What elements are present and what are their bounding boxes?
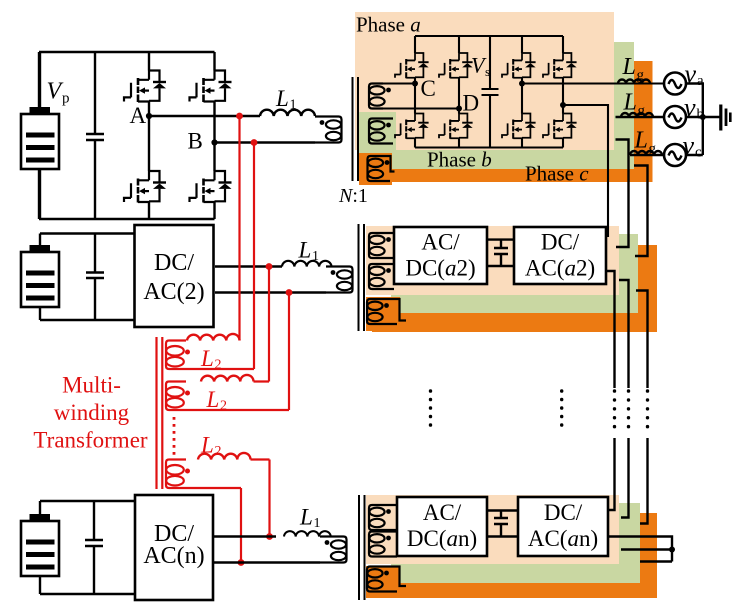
svg-text:L: L [200, 346, 214, 371]
wire: winding c2 stubs [381, 299, 406, 324]
svg-text:1: 1 [290, 98, 297, 113]
svg-text:L: L [200, 433, 214, 458]
wire: winding cn stubs [381, 567, 406, 592]
svg-text:AC(an): AC(an) [528, 526, 598, 551]
transistor S4 [543, 53, 577, 78]
red winding 2 [166, 382, 190, 411]
transistor S8 [543, 114, 577, 139]
transformer 1 primary coil [315, 117, 342, 143]
red winding 2 wires [254, 267, 270, 382]
node: string neutral [669, 547, 675, 553]
transformer 1 core [353, 77, 359, 181]
capacitor Vs [482, 36, 499, 148]
wire: top rail [415, 35, 563, 37]
inductor Lg (phase a) [618, 80, 650, 84]
inductor L2 (winding 2) [201, 375, 254, 382]
battery Vp [21, 107, 59, 169]
AC source va [664, 73, 686, 95]
node: leg3 output [519, 81, 525, 87]
converter AC/DC(an) [397, 497, 487, 556]
phase b background (top block) [614, 42, 634, 170]
phase b winding patch [359, 112, 396, 153]
svg-text:L: L [206, 387, 220, 412]
svg-text:N:1: N:1 [338, 185, 368, 207]
wire: b2 module output down [619, 280, 629, 518]
converter DC/AC(2) [135, 225, 214, 327]
transistor S2 [439, 53, 473, 78]
svg-text:AC/: AC/ [423, 500, 462, 525]
node: neutral junction [700, 114, 706, 120]
svg-text:L: L [275, 86, 289, 111]
svg-text:2: 2 [220, 399, 227, 414]
svg-text:DC/: DC/ [154, 250, 194, 276]
transformer core (red) [157, 337, 163, 489]
transformer 1 winding c [368, 156, 390, 181]
svg-text:AC(n): AC(n) [143, 543, 204, 569]
transformer n primary coil [320, 537, 347, 563]
phase c background (an row) [640, 513, 657, 598]
svg-text:a: a [697, 73, 704, 89]
transformer 2 winding a2 [369, 233, 391, 258]
phase b background (a2 row) [619, 234, 638, 313]
wire: DC/AC(a2) output down [606, 271, 615, 510]
capacitor a2 dc link [494, 240, 508, 266]
AC source vc [664, 144, 686, 166]
transistor Q4 [190, 171, 232, 203]
AC source vb [664, 106, 686, 128]
wire: battery 1 leads [39, 52, 41, 219]
svg-text:s: s [485, 64, 490, 79]
wire: leg1 [414, 36, 416, 148]
svg-text:2: 2 [215, 358, 222, 373]
svg-text:L: L [634, 128, 648, 154]
transformer 1 winding a [369, 84, 391, 109]
wire: winding a to node C [383, 82, 415, 84]
svg-text:A: A [130, 103, 147, 128]
wire: winding b2 stubs [383, 264, 394, 289]
svg-text:winding: winding [54, 400, 130, 425]
svg-text:L: L [622, 54, 636, 80]
wire: winding a to node D [383, 107, 459, 109]
phase c background (top block) [634, 61, 653, 182]
capacitor an dc link [494, 511, 508, 537]
wire: phase b module to Lg b [616, 116, 664, 118]
transistor S3 [502, 53, 536, 78]
svg-text:g: g [637, 68, 645, 84]
svg-text:2: 2 [215, 444, 222, 459]
junction: winding 1 return on node B wire [251, 139, 258, 146]
phase c winding patch [359, 153, 392, 185]
wire: leg3 node to Lg a [522, 82, 664, 84]
wire: leg2 [458, 36, 460, 148]
transformer 2 primary coil [326, 267, 353, 293]
wire: c2 module output down [636, 291, 648, 524]
svg-text:DC(an): DC(an) [407, 526, 477, 551]
svg-text:Phase b: Phase b [427, 148, 492, 172]
phase-a bridge [383, 36, 664, 236]
wire: DC/AC(an) output loop [608, 537, 672, 562]
svg-text:AC(a2): AC(a2) [525, 256, 595, 281]
wire: leg4 node down to AC-DC(a2) [563, 105, 608, 236]
svg-text:Multi-: Multi- [62, 373, 121, 398]
top-left inverter outer frame [39, 52, 215, 219]
capacitor C2 [86, 234, 104, 321]
transformer n core [359, 495, 365, 600]
svg-text:D: D [463, 91, 480, 116]
transformer n winding an [369, 505, 391, 530]
wire: winding 1 bottom to node B line [186, 143, 254, 370]
wire: node A to L1 [149, 115, 260, 117]
wire: winding b stubs [383, 119, 393, 144]
phase a background (an row) [366, 495, 619, 564]
wire: leg1 of bridge 1 [148, 52, 150, 219]
transformer 2 winding c2 [367, 299, 389, 324]
junction: winding 1 tap on node A wire [236, 113, 243, 120]
wire: winding c stubs [382, 156, 395, 181]
wire: right bus with sources [687, 84, 703, 156]
junction: winding 3 return on DC/AC(n) bottom output [238, 559, 245, 566]
capacitor C1 [86, 52, 104, 219]
wire: L2-1 up to node A line [238, 116, 240, 341]
node: leg4 output [560, 102, 566, 108]
converter DC/AC(n) [135, 495, 213, 600]
svg-text:g: g [638, 103, 646, 119]
wire: cn module output [640, 560, 672, 562]
wire: DC/AC(n) output bottom [213, 561, 320, 563]
ground [721, 105, 731, 131]
dotted continuation columns [431, 391, 648, 435]
wire: phase c module down to a2 row [634, 166, 648, 257]
transformer n winding cn [367, 567, 389, 592]
transistor S7 [502, 114, 536, 139]
battery n [21, 514, 59, 576]
svg-text:C: C [421, 76, 436, 101]
svg-text:1: 1 [314, 516, 321, 531]
phase a background (a2 row) [366, 226, 619, 295]
wire: phase b module down to a2 row [616, 140, 629, 248]
svg-text:c: c [695, 145, 702, 161]
wire: an dc link [487, 511, 518, 537]
svg-text:V: V [47, 79, 64, 105]
svg-text:b: b [697, 107, 705, 123]
svg-text:v: v [685, 60, 697, 89]
transistor S1 [395, 53, 429, 78]
wire: battery n rails [40, 501, 135, 594]
svg-text:AC/: AC/ [421, 230, 460, 255]
svg-text:Transformer: Transformer [33, 428, 147, 453]
inductor L1 (row n) [284, 531, 331, 536]
capacitor Cn [85, 501, 103, 594]
wire: leg3 [521, 36, 523, 148]
svg-text:AC(2): AC(2) [143, 279, 204, 305]
wire: winding bn stubs [383, 532, 397, 557]
inductor L2 (winding 1) [187, 334, 240, 341]
svg-text:DC/: DC/ [544, 500, 583, 525]
wire: winding a2 stubs [383, 233, 394, 258]
converter DC/AC(a2) [514, 227, 606, 284]
wire: ground lead [703, 116, 720, 118]
red winding 1 [166, 341, 190, 370]
transistor Q1 [124, 71, 166, 103]
transformer 2 winding b2 [369, 264, 391, 289]
svg-text:Phase a: Phase a [356, 13, 421, 37]
converter AC/DC(a2) [394, 227, 487, 284]
transformer n winding bn [369, 532, 391, 557]
converter DC/AC(an) [518, 497, 608, 556]
phase a background (top block) [355, 12, 614, 150]
svg-text:B: B [188, 129, 203, 154]
inductor Lg (phase b) [621, 113, 653, 117]
transistor S6 [439, 114, 473, 139]
svg-text:p: p [62, 91, 70, 107]
node A [146, 113, 152, 119]
wire: node B to primary [215, 141, 316, 143]
inductor L2 (winding 3) [198, 453, 251, 460]
transformer 1 winding b [369, 119, 391, 144]
inductor Lg (phase c) [630, 151, 662, 155]
svg-text:DC(a2): DC(a2) [405, 256, 475, 281]
wire: winding an stubs [383, 505, 397, 530]
svg-text:L: L [299, 505, 313, 530]
wire: bottom rail [415, 146, 563, 148]
dashed core continuation [173, 417, 176, 457]
wire: leg2 of bridge 1 [213, 52, 215, 219]
svg-text:Phase c: Phase c [525, 162, 589, 186]
inductor L1 (row 1) [260, 110, 315, 116]
junction: winding 2 return on DC/AC(2) bottom output [286, 289, 293, 296]
wire: DC/AC(2) output bottom [215, 291, 326, 293]
wire: phase c module to Lg c [630, 154, 664, 156]
svg-text:g: g [649, 141, 657, 157]
node B [211, 139, 217, 145]
transformer 2 core [359, 224, 365, 331]
svg-text:v: v [684, 93, 696, 122]
svg-text:1: 1 [312, 249, 319, 264]
phase c background (a2 row) [638, 245, 657, 332]
transistor Q3 [124, 171, 166, 203]
svg-text:v: v [683, 131, 695, 160]
node C [412, 81, 418, 87]
junction: winding 3 tap on DC/AC(n) top output [266, 533, 273, 540]
wire: DC/AC(n) output top [213, 535, 276, 537]
svg-text:DC/: DC/ [541, 230, 580, 255]
junction: winding 2 tap on DC/AC(2) top output [266, 263, 273, 270]
wire: a2 dc link [487, 240, 514, 266]
wire: battery 2 top rail [40, 234, 136, 321]
wire: leg4 [562, 36, 564, 148]
wire: bn module output [621, 548, 672, 550]
transistor S5 [395, 114, 429, 139]
svg-text:L: L [623, 90, 637, 116]
node D [456, 106, 462, 112]
red winding 3 wires [251, 460, 270, 537]
battery 2 [21, 245, 59, 307]
inductor L1 (row 2) [282, 261, 332, 267]
transistor Q2 [190, 71, 232, 103]
phase b background (an row) [619, 503, 640, 583]
wire: DC/AC(2) output top [215, 265, 282, 267]
svg-text:L: L [298, 238, 312, 263]
red winding 3 [166, 460, 190, 489]
